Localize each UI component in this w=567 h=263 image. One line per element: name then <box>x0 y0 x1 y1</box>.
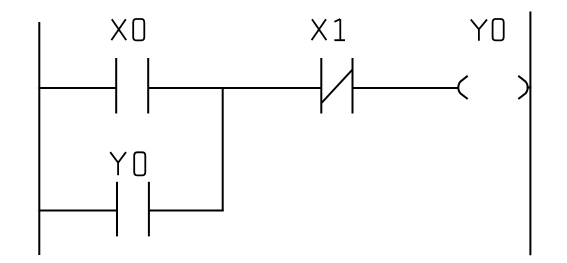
wire Y0 contact to branch junction <box>149 210 224 212</box>
wire X0 to X1 (through branch node) <box>148 87 321 89</box>
contact Y0 left bar <box>116 182 118 237</box>
label Y0 (coil) : digit 0 <box>493 19 504 40</box>
label Y0 (seal-in contact) : digit 0 <box>134 152 145 175</box>
contact Y0 right bar <box>148 182 150 237</box>
contact X0 right bar <box>147 58 149 114</box>
wire X1 to coil Y0 <box>353 87 459 89</box>
label X1 : letter X <box>312 19 327 40</box>
label X0 : digit 0 <box>133 19 144 40</box>
wire left rail to Y0 contact (bottom rung) <box>38 210 116 212</box>
contact X0 left bar <box>115 58 117 114</box>
contact X1 right bar <box>352 58 354 114</box>
label Y0 (seal-in contact) : letter Y <box>110 152 126 175</box>
wire left rail to X0 <box>38 87 115 89</box>
left power rail <box>38 22 40 255</box>
contact X1 left bar <box>320 58 322 114</box>
contact X1 NC slash <box>322 70 353 104</box>
label X1 : digit 1 <box>334 19 345 40</box>
coil Y0 right parenthesis <box>518 76 527 99</box>
branch wire vertical (junction after X0 down to seal-in rung) <box>222 87 224 211</box>
right power rail <box>529 12 531 256</box>
label Y0 (coil) : letter Y <box>471 20 487 41</box>
coil Y0 left parenthesis <box>458 76 467 99</box>
wire coil to right rail <box>527 87 532 89</box>
label X0 : letter X <box>111 19 126 40</box>
